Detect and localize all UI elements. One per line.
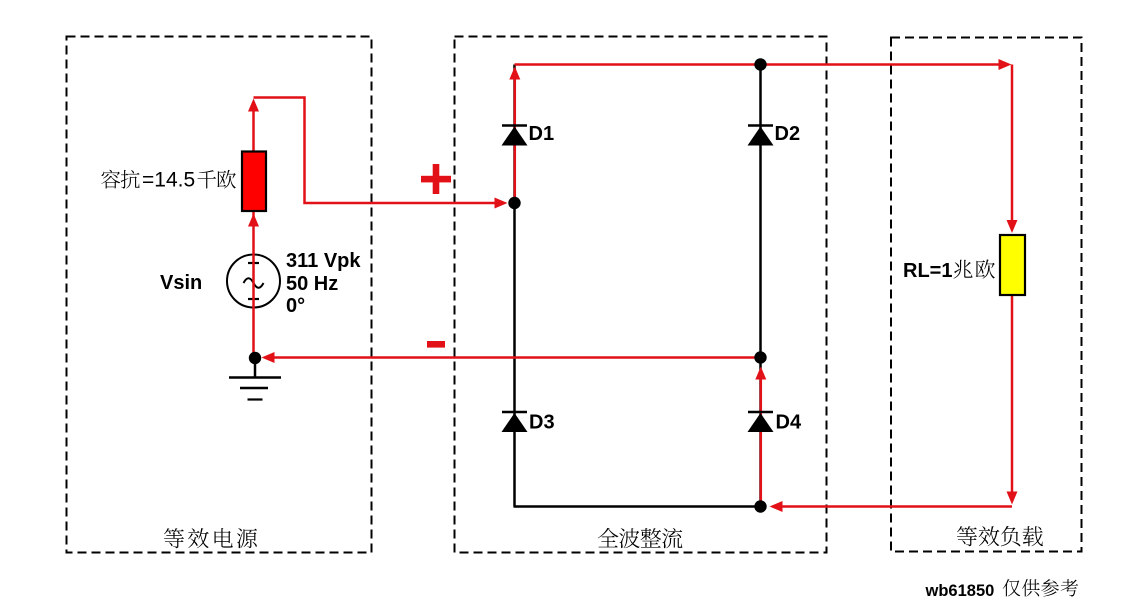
red wire: bridge top to load <box>515 63 1002 66</box>
svg-text:D3: D3 <box>529 412 555 434</box>
ground stub wire <box>254 358 257 377</box>
red wire: top corner to + node <box>254 98 499 204</box>
junction node 2 <box>508 197 520 209</box>
AC source Vsin circle <box>227 255 280 308</box>
plus sign (red) <box>421 176 451 183</box>
svg-text:311 Vpk: 311 Vpk <box>286 250 361 272</box>
junction node 4 <box>754 351 766 363</box>
diode D2 cathode bar <box>748 124 773 127</box>
red wire: load bottom return <box>779 505 1012 508</box>
ground symbol <box>229 376 281 379</box>
diode D4 cathode bar <box>748 411 773 414</box>
svg-text:=14.5: =14.5 <box>142 169 195 192</box>
minus sign (red) <box>427 341 445 348</box>
diode D1 triangle <box>502 127 528 146</box>
svg-text:wb61850: wb61850 <box>925 582 995 600</box>
resistor: source impedance (red) <box>242 152 266 212</box>
junction node 3 <box>754 58 766 70</box>
diode D1 cathode bar <box>502 124 527 127</box>
svg-text:50 Hz: 50 Hz <box>286 273 338 295</box>
red wire: minus return to ground <box>270 356 761 359</box>
caption: equivalent load <box>957 526 977 546</box>
source sine symbol <box>244 278 264 288</box>
red wire: source branch up through circle <box>252 212 255 358</box>
red wire: D4 branch overlay <box>760 372 763 507</box>
red wire: load column upper <box>1011 65 1014 223</box>
svg-text:Vsin: Vsin <box>160 272 202 294</box>
source + terminal mark <box>248 262 259 264</box>
caption: equivalent source <box>164 528 184 548</box>
caption: for reference only <box>1003 579 1021 596</box>
junction node 5 <box>754 500 766 512</box>
diode D4 triangle <box>748 413 774 432</box>
diode D2 triangle <box>748 127 774 146</box>
right dashed box: equivalent load <box>891 38 1082 552</box>
red wire: D1 branch overlay <box>514 68 517 203</box>
caption: full-wave rectifier <box>598 528 619 547</box>
svg-text:D4: D4 <box>776 412 802 434</box>
middle dashed box: full-wave rectifier <box>455 37 827 553</box>
left dashed box: equivalent source <box>67 37 372 553</box>
wire: left bridge branch (black) <box>513 65 516 507</box>
junction node 1 <box>249 352 261 364</box>
source - terminal mark <box>248 298 259 300</box>
svg-text:D2: D2 <box>775 123 801 145</box>
diode D3 cathode bar <box>502 411 527 414</box>
red wire: load column lower <box>1011 295 1014 495</box>
red wire: above source resistor <box>252 104 255 151</box>
svg-text:RL=1: RL=1 <box>903 260 952 282</box>
svg-text:D1: D1 <box>529 123 555 145</box>
wire: right bridge branch (black) <box>759 65 762 507</box>
diode D3 triangle <box>502 413 528 432</box>
wire: bridge bottom <box>514 505 762 508</box>
svg-text:0°: 0° <box>286 295 305 317</box>
resistor RL (yellow) <box>1000 235 1025 295</box>
label reactance=14.5 kohm <box>101 170 120 189</box>
